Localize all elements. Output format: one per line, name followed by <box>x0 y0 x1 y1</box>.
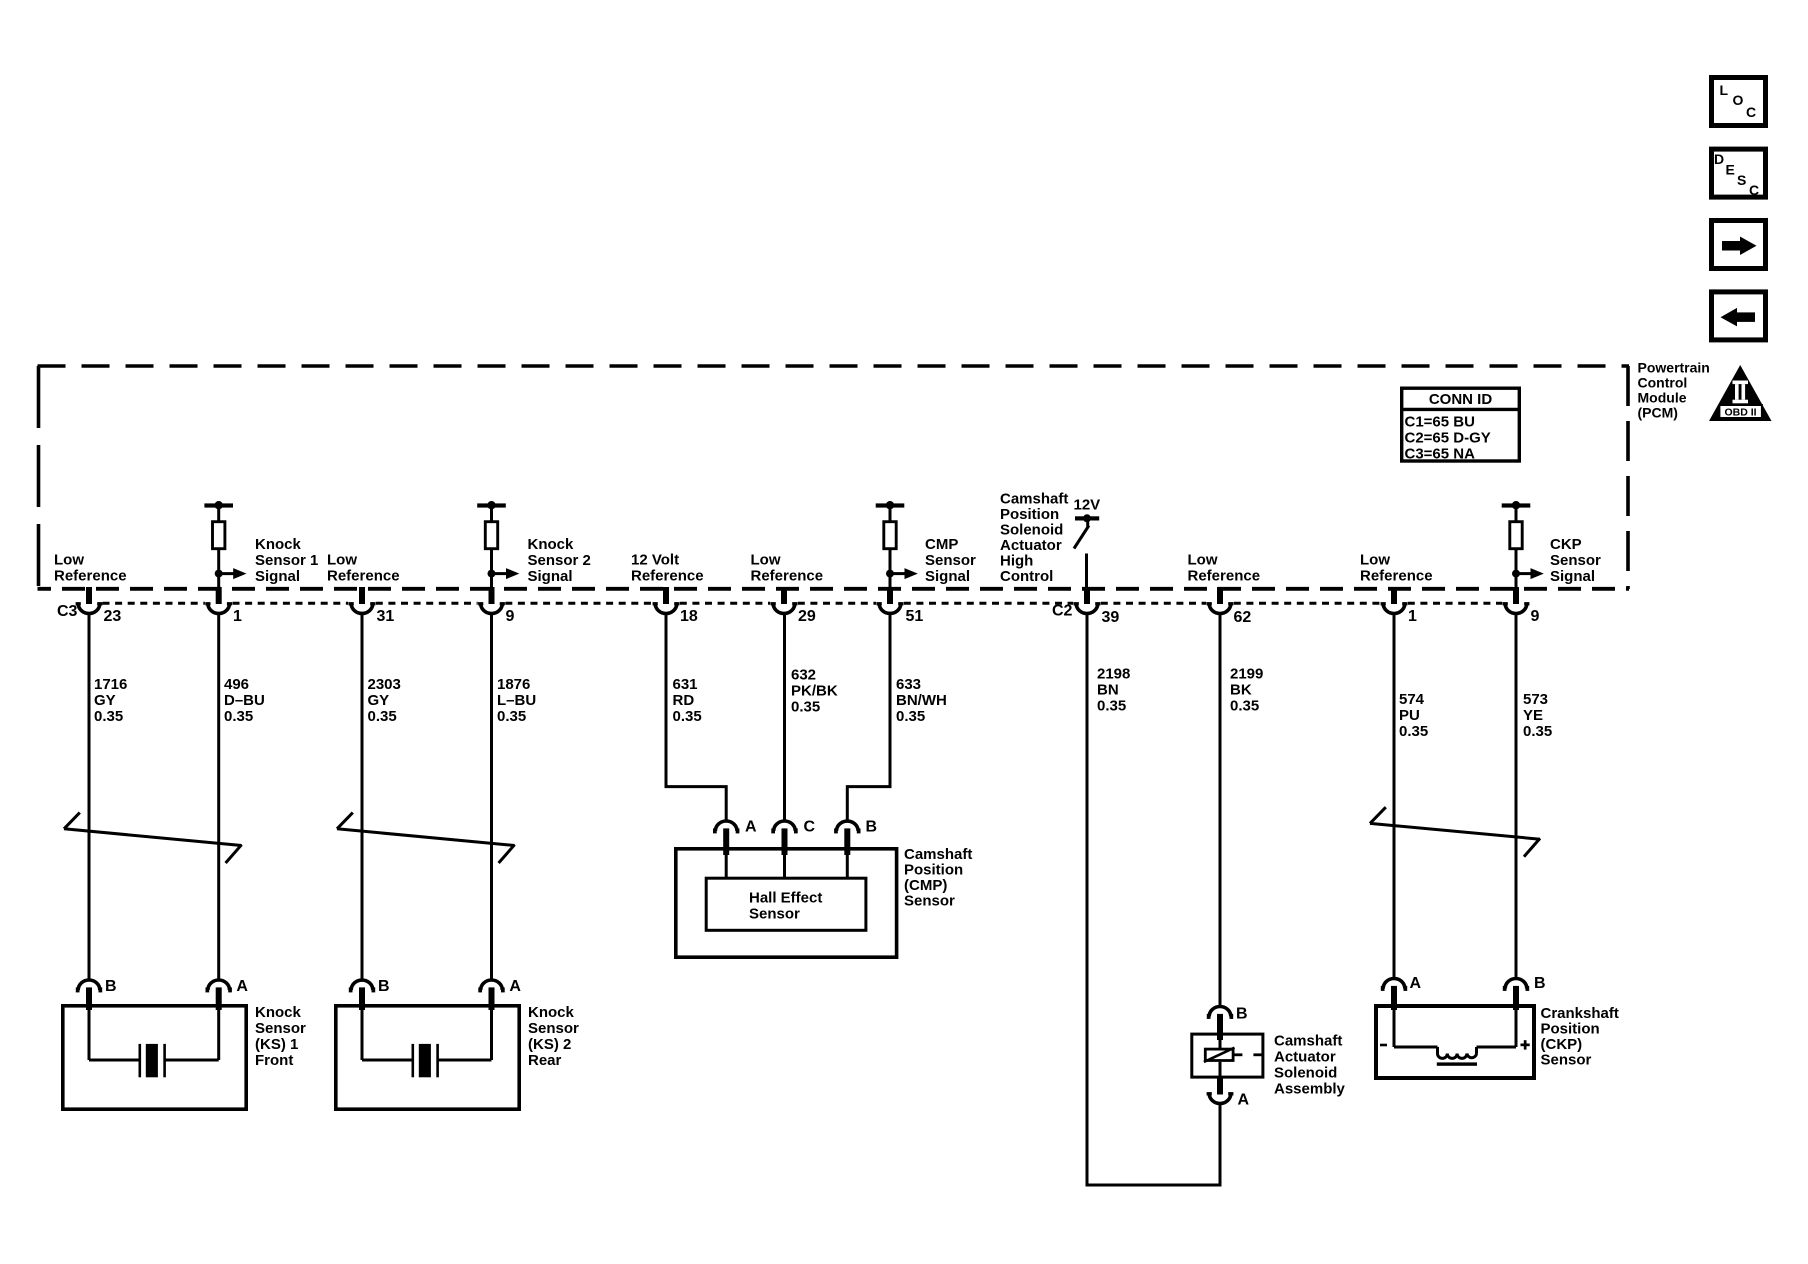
label Camshaft Position Solenoid Actuator High Control <box>1000 491 1068 586</box>
pin number 1 (right) <box>1408 608 1417 625</box>
12V feed bar with junction dot <box>1075 514 1099 522</box>
svg-text:C3: C3 <box>57 603 78 620</box>
connector CMP pin A <box>713 821 739 855</box>
pin number 62 <box>1234 609 1252 626</box>
svg-text:OBD II: OBD II <box>1724 406 1756 418</box>
svg-text:Reference: Reference <box>631 568 704 585</box>
svg-text:(PCM): (PCM) <box>1638 405 1678 421</box>
pcm connector pin 1 (C3) <box>205 587 232 614</box>
svg-text:Sensor: Sensor <box>1541 1052 1592 1069</box>
button DESC (hyperlink box) <box>1712 149 1766 198</box>
terminal letter A (KS2) <box>509 978 521 995</box>
wire 631 RD (pin 18 to CMP A) <box>666 614 726 822</box>
connector solenoid pin B <box>1207 1006 1233 1040</box>
label Knock Sensor 2 Signal <box>528 536 591 585</box>
svg-text:0.35: 0.35 <box>1399 723 1428 740</box>
CONN ID table <box>1400 388 1521 462</box>
terminal letter A (KS1) <box>236 978 248 995</box>
svg-text:PU: PU <box>1399 707 1420 724</box>
connector CKP pin A <box>1381 978 1407 1010</box>
label 12V <box>1074 497 1101 514</box>
resistor (CKP sensor signal pull-up) <box>1502 501 1544 589</box>
svg-text:2303: 2303 <box>368 676 401 693</box>
svg-text:BK: BK <box>1230 682 1252 699</box>
terminal letter B (solenoid) <box>1236 1006 1248 1023</box>
svg-text:Sensor: Sensor <box>255 1020 306 1037</box>
terminal letter B (CKP) <box>1534 975 1546 992</box>
wire label 573 YE 0.35 <box>1523 691 1552 740</box>
svg-text:Knock: Knock <box>528 536 575 553</box>
svg-text:CKP: CKP <box>1550 536 1582 553</box>
polarity plus sign (CKP) <box>1521 1040 1530 1049</box>
label C3 <box>57 603 78 620</box>
wire label 2199 BK 0.35 <box>1230 666 1263 715</box>
svg-text:GY: GY <box>368 692 390 709</box>
pin number 9 (right) <box>1531 608 1540 625</box>
svg-text:High: High <box>1000 553 1033 570</box>
svg-text:0.35: 0.35 <box>896 708 925 725</box>
label Low Reference (pin 1 right) <box>1360 552 1433 585</box>
svg-text:Powertrain: Powertrain <box>1638 360 1710 376</box>
svg-text:Camshaft: Camshaft <box>1000 491 1068 508</box>
label C2 <box>1052 603 1073 620</box>
svg-text:Camshaft: Camshaft <box>904 846 972 863</box>
label Hall Effect Sensor <box>749 890 822 923</box>
svg-text:Rear: Rear <box>528 1052 562 1069</box>
svg-text:C: C <box>804 819 816 836</box>
hall effect sensor box <box>706 878 866 930</box>
camshaft actuator solenoid box <box>1192 1034 1263 1077</box>
svg-text:Sensor 1: Sensor 1 <box>255 552 318 569</box>
svg-text:Low: Low <box>1360 552 1390 569</box>
svg-text:A: A <box>1238 1092 1250 1109</box>
OBD II symbol <box>1709 365 1772 421</box>
piezo element (KS2) <box>412 1044 439 1077</box>
svg-text:Signal: Signal <box>528 568 573 585</box>
wire 496 D-BU (pin 1 to KS1 A) <box>217 614 220 981</box>
svg-text:632: 632 <box>791 667 816 684</box>
button LOC (hyperlink box) <box>1712 78 1766 126</box>
svg-text:39: 39 <box>1102 609 1120 626</box>
label Crankshaft Position (CKP) Sensor <box>1541 1005 1619 1069</box>
connector KS2 pin B <box>349 980 375 1010</box>
svg-text:12 Volt: 12 Volt <box>631 552 679 569</box>
piezo element (KS1) <box>139 1044 166 1077</box>
svg-text:29: 29 <box>798 608 816 625</box>
pcm connector pin 29 <box>771 587 798 614</box>
KS1 internal wiring <box>89 1008 219 1060</box>
svg-text:Signal: Signal <box>925 568 970 585</box>
label Knock Sensor (KS) 1 Front <box>255 1004 306 1069</box>
svg-text:496: 496 <box>224 676 249 693</box>
svg-text:CMP: CMP <box>925 536 958 553</box>
svg-text:Signal: Signal <box>255 568 300 585</box>
label 12 Volt Reference <box>631 552 704 585</box>
terminal letter B (CMP) <box>866 819 878 836</box>
svg-text:Knock: Knock <box>255 536 302 553</box>
terminal letter A (CKP) <box>1410 975 1422 992</box>
svg-text:D–BU: D–BU <box>224 692 265 709</box>
svg-text:0.35: 0.35 <box>791 699 820 716</box>
connector KS1 pin A <box>206 980 232 1010</box>
svg-text:Low: Low <box>1188 552 1218 569</box>
svg-text:Position: Position <box>904 862 963 879</box>
svg-text:12V: 12V <box>1074 497 1101 514</box>
svg-text:9: 9 <box>506 608 515 625</box>
button forward arrow <box>1712 221 1766 269</box>
wire 1876 L-BU (pin 9 to KS2 A) <box>490 614 493 981</box>
svg-text:1876: 1876 <box>497 676 530 693</box>
wire 574 PU (pin 1 to CKP A) <box>1393 614 1396 978</box>
wire label 1876 L-BU 0.35 <box>497 676 536 725</box>
svg-text:D: D <box>1714 151 1724 167</box>
terminal letter B (KS1) <box>105 978 117 995</box>
pcm connector pin 9 (right) <box>1503 587 1530 614</box>
svg-text:Sensor 2: Sensor 2 <box>528 552 591 569</box>
svg-text:RD: RD <box>673 692 695 709</box>
CMP internal wires <box>726 853 847 877</box>
connector CMP pin B <box>834 821 860 855</box>
connector CKP pin B <box>1503 978 1529 1010</box>
svg-text:Sensor: Sensor <box>1550 552 1601 569</box>
svg-text:1: 1 <box>233 608 242 625</box>
svg-text:Front: Front <box>255 1052 293 1069</box>
label Camshaft Actuator Solenoid Assembly <box>1274 1033 1346 1098</box>
wire 2303 GY (pin 31 to KS2 B) <box>361 614 364 981</box>
svg-text:Control: Control <box>1000 568 1053 585</box>
wire 1716 GY (pin 23 to KS1 B) <box>88 614 91 981</box>
label Low Reference (pin 31) <box>327 552 400 585</box>
svg-text:C3=65 NA: C3=65 NA <box>1405 445 1476 462</box>
svg-text:631: 631 <box>673 676 698 693</box>
svg-text:2199: 2199 <box>1230 666 1263 683</box>
svg-text:(KS) 2: (KS) 2 <box>528 1036 571 1053</box>
svg-text:B: B <box>1534 975 1546 992</box>
svg-text:BN/WH: BN/WH <box>896 692 947 709</box>
svg-text:Solenoid: Solenoid <box>1274 1065 1337 1082</box>
pin number 31 <box>377 608 395 625</box>
svg-text:BN: BN <box>1097 682 1119 699</box>
svg-text:62: 62 <box>1234 609 1252 626</box>
wire 632 PK/BK (pin 29 to CMP C) <box>783 614 786 822</box>
svg-text:18: 18 <box>680 608 698 625</box>
KS2 internal wiring <box>362 1008 492 1060</box>
svg-text:Reference: Reference <box>54 568 127 585</box>
svg-text:0.35: 0.35 <box>224 708 253 725</box>
svg-text:Sensor: Sensor <box>528 1020 579 1037</box>
svg-text:Assembly: Assembly <box>1274 1081 1346 1098</box>
wire label 631 RD 0.35 <box>673 676 702 725</box>
label Low Reference (pin 62) <box>1188 552 1261 585</box>
svg-text:C1=65 BU: C1=65 BU <box>1405 413 1475 430</box>
terminal letter B (KS2) <box>378 978 390 995</box>
connector CMP pin C <box>771 821 797 855</box>
polarity minus sign (CKP) <box>1380 1044 1387 1047</box>
terminal letter A (CMP) <box>745 819 757 836</box>
svg-text:0.35: 0.35 <box>673 708 702 725</box>
svg-text:23: 23 <box>104 608 122 625</box>
svg-text:Crankshaft: Crankshaft <box>1541 1005 1619 1022</box>
terminal letter C (CMP) <box>804 819 816 836</box>
label Low Reference (pin 23) <box>54 552 127 585</box>
wire label 574 PU 0.35 <box>1399 691 1428 740</box>
svg-text:B: B <box>1236 1006 1248 1023</box>
svg-text:31: 31 <box>377 608 395 625</box>
label Powertrain Control Module (PCM) <box>1638 360 1710 421</box>
pcm connector pin 1 (right) <box>1381 587 1408 614</box>
svg-text:A: A <box>745 819 757 836</box>
connector KS2 pin A <box>478 980 504 1010</box>
svg-text:C2=65 D-GY: C2=65 D-GY <box>1405 429 1491 446</box>
svg-text:A: A <box>236 978 248 995</box>
svg-text:Knock: Knock <box>528 1004 575 1021</box>
terminal letter A (solenoid) <box>1238 1092 1250 1109</box>
label Knock Sensor (KS) 2 Rear <box>528 1004 579 1069</box>
svg-text:633: 633 <box>896 676 921 693</box>
crankshaft position sensor box <box>1376 1006 1534 1078</box>
svg-text:1: 1 <box>1408 608 1417 625</box>
svg-text:573: 573 <box>1523 691 1548 708</box>
resistor (CMP sensor signal pull-up) <box>876 501 918 589</box>
svg-text:YE: YE <box>1523 707 1543 724</box>
wire 12V switch to pin 39 <box>1085 554 1088 590</box>
resistor (knock sensor 2 signal pull-up) <box>477 501 519 589</box>
pin number 9 <box>506 608 515 625</box>
knock sensor KS2 box <box>336 1006 519 1109</box>
svg-text:Module: Module <box>1638 390 1687 406</box>
svg-text:B: B <box>105 978 117 995</box>
label Camshaft Position (CMP) Sensor <box>904 846 972 910</box>
svg-text:C: C <box>1746 104 1756 120</box>
svg-text:A: A <box>1410 975 1422 992</box>
pcm connector pin 31 <box>349 587 376 613</box>
wire label 1716 GY 0.35 <box>94 676 127 725</box>
wire 633 BN/WH (pin 51 to CMP B) <box>847 614 890 822</box>
solenoid valve symbol <box>1204 1040 1264 1079</box>
CKP internal wiring <box>1394 1009 1516 1047</box>
harness break (CKP wires) <box>1370 807 1540 857</box>
harness break (KS2 wires) <box>337 813 515 863</box>
svg-text:Sensor: Sensor <box>925 552 976 569</box>
connector face dotted line <box>103 602 1503 605</box>
pcm connector pin 23 <box>76 587 103 614</box>
pin number 1 <box>233 608 242 625</box>
svg-text:0.35: 0.35 <box>1097 698 1126 715</box>
svg-text:574: 574 <box>1399 691 1425 708</box>
svg-text:PK/BK: PK/BK <box>791 683 838 700</box>
svg-text:0.35: 0.35 <box>1523 723 1552 740</box>
svg-text:1716: 1716 <box>94 676 127 693</box>
svg-text:GY: GY <box>94 692 116 709</box>
svg-text:Low: Low <box>54 552 84 569</box>
wire label 632 PK/BK 0.35 <box>791 667 838 716</box>
label Knock Sensor 1 Signal <box>255 536 318 585</box>
wire 2199 BK (pin 62 to solenoid B) <box>1219 614 1222 1006</box>
svg-text:L–BU: L–BU <box>497 692 536 709</box>
wire label 2198 BN 0.35 <box>1097 666 1130 715</box>
connector KS1 pin B <box>76 980 102 1010</box>
wire 2198 BN (pin 39 to solenoid A) <box>1087 614 1220 1186</box>
knock sensor KS1 box <box>63 1006 246 1109</box>
label Low Reference (pin 29) <box>751 552 824 585</box>
pin number 51 <box>906 608 924 625</box>
svg-text:S: S <box>1737 172 1746 188</box>
svg-text:CONN ID: CONN ID <box>1429 391 1493 408</box>
wire label 633 BN/WH 0.35 <box>896 676 947 725</box>
svg-text:(CMP): (CMP) <box>904 877 947 894</box>
svg-text:Actuator: Actuator <box>1000 537 1062 554</box>
svg-text:Low: Low <box>327 552 357 569</box>
svg-text:B: B <box>866 819 878 836</box>
pcm connector pin 18 <box>653 587 680 614</box>
resistor (knock sensor 1 signal pull-up) <box>204 501 246 589</box>
svg-text:Reference: Reference <box>327 568 400 585</box>
pin number 18 <box>680 608 698 625</box>
pcm connector pin 39 (C2) <box>1074 587 1101 614</box>
svg-text:(KS) 1: (KS) 1 <box>255 1036 298 1053</box>
svg-text:E: E <box>1726 162 1735 178</box>
svg-text:O: O <box>1733 92 1744 108</box>
svg-text:2198: 2198 <box>1097 666 1130 683</box>
pcm connector pin 9 (C3) <box>478 587 505 614</box>
wire 573 YE (pin 9 to CKP B) <box>1515 614 1518 978</box>
svg-text:Sensor: Sensor <box>749 906 800 923</box>
label CMP Sensor Signal <box>925 536 976 585</box>
svg-text:Position: Position <box>1000 506 1059 523</box>
svg-text:9: 9 <box>1531 608 1540 625</box>
svg-text:C2: C2 <box>1052 603 1073 620</box>
svg-text:C: C <box>1749 182 1759 198</box>
connector solenoid pin A <box>1207 1078 1234 1104</box>
button back arrow <box>1712 292 1766 340</box>
svg-text:Camshaft: Camshaft <box>1274 1033 1342 1050</box>
PCM module dashed box <box>38 366 1630 589</box>
svg-text:(CKP): (CKP) <box>1541 1036 1583 1053</box>
pickup coil (CKP) <box>1437 1047 1477 1066</box>
svg-text:Knock: Knock <box>255 1004 302 1021</box>
wire label 2303 GY 0.35 <box>368 676 401 725</box>
svg-text:0.35: 0.35 <box>497 708 526 725</box>
pin number 39 <box>1102 609 1120 626</box>
pcm connector pin 62 <box>1207 587 1234 614</box>
svg-text:Sensor: Sensor <box>904 893 955 910</box>
label CKP Sensor Signal <box>1550 536 1601 585</box>
svg-text:51: 51 <box>906 608 924 625</box>
wire label 496 D-BU 0.35 <box>224 676 265 725</box>
svg-text:Reference: Reference <box>1360 568 1433 585</box>
svg-text:Solenoid: Solenoid <box>1000 522 1063 539</box>
switch (solenoid driver) <box>1074 519 1089 549</box>
svg-text:Actuator: Actuator <box>1274 1049 1336 1066</box>
svg-text:Reference: Reference <box>751 568 824 585</box>
pcm connector pin 51 <box>877 587 904 613</box>
svg-text:L: L <box>1720 82 1729 98</box>
svg-text:Control: Control <box>1638 375 1688 391</box>
svg-text:Reference: Reference <box>1188 568 1261 585</box>
svg-text:Signal: Signal <box>1550 568 1595 585</box>
pin number 23 <box>104 608 122 625</box>
svg-text:Low: Low <box>751 552 781 569</box>
svg-text:0.35: 0.35 <box>94 708 123 725</box>
pin number 29 <box>798 608 816 625</box>
svg-text:Position: Position <box>1541 1021 1600 1038</box>
svg-text:A: A <box>509 978 521 995</box>
svg-text:Hall Effect: Hall Effect <box>749 890 822 907</box>
harness break (KS1 wires) <box>64 813 242 863</box>
svg-text:0.35: 0.35 <box>1230 698 1259 715</box>
svg-text:0.35: 0.35 <box>368 708 397 725</box>
svg-text:B: B <box>378 978 390 995</box>
CMP sensor outer box <box>676 849 897 957</box>
